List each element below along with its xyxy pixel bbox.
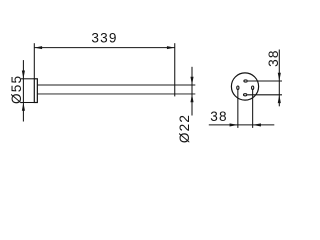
screw slot north [244,80,247,82]
dimension line Ø22 [191,67,193,116]
svg-text:38: 38 [210,109,228,124]
extension line left (339) [33,43,35,79]
arrow Ø22 bottom [190,94,193,102]
extension line right (339) / rod end [174,43,176,96]
dimension line 38 horizontal [209,124,274,126]
arrow Ø55 bottom [22,103,25,111]
extension line from east slot (38 horizontal) [252,90,254,128]
extension line from north slot (38 vertical) [248,80,282,82]
screw slot west [237,86,239,89]
dimension line 38 vertical [278,50,280,107]
rod bottom outline (also extension for Ø22) [37,93,195,95]
svg-text:Ø55: Ø55 [9,75,24,104]
extension tick flange bottom (Ø55) [21,102,34,104]
rod (side view) top outline [37,84,195,86]
extension tick flange top (Ø55) [21,78,34,80]
arrow Ø55 top [22,71,25,79]
svg-text:Ø22: Ø22 [177,114,192,143]
extension line from west slot (38 horizontal) [237,90,239,128]
arrow Ø22 top [190,77,193,85]
svg-text:38: 38 [266,49,281,67]
dimension line 339 [34,47,174,49]
arrow 339 left [34,46,42,49]
screw slot east [252,86,254,89]
arrow 339 right [167,46,175,49]
extension line from south slot (38 vertical) [248,94,283,96]
arrow 38 vertical top [278,73,281,81]
arrow 38 horizontal left [230,123,238,126]
svg-text:339: 339 [91,30,117,45]
arrow 38 horizontal right [253,123,261,126]
end-view circle (wall plate) [231,73,258,100]
screw slot south [244,94,247,96]
dimension line Ø55 [22,60,24,121]
wall flange rectangle (side view) [34,79,37,103]
arrow 38 vertical bottom [278,95,281,103]
